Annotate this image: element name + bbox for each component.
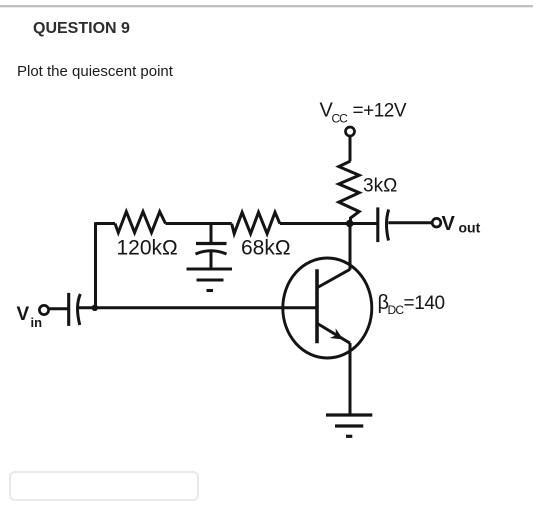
- output cap straight plate: [376, 207, 379, 242]
- transistor base bar: [315, 269, 319, 343]
- collector wire: [349, 224, 352, 270]
- bypass cap top plate: [196, 242, 227, 245]
- wire 68k to output cap: [280, 222, 377, 225]
- svg-text:=+12V: =+12V: [353, 101, 407, 122]
- svg-text:out: out: [459, 220, 481, 236]
- junction dot input: [92, 305, 98, 311]
- wire Vin circle to cap: [49, 307, 69, 310]
- resistor 3k zigzag: [339, 161, 359, 224]
- svg-text:V: V: [442, 213, 456, 235]
- collector diagonal: [318, 269, 351, 287]
- middle ground line1: [187, 267, 233, 270]
- svg-text:=140: =140: [404, 293, 445, 314]
- top divider line: [0, 5, 533, 7]
- wire Vcc to R 3k: [349, 136, 352, 161]
- Vout terminal circle: [432, 218, 441, 227]
- svg-text:V: V: [17, 304, 30, 325]
- heading QUESTION 9: [33, 20, 130, 38]
- left vertical wire: [94, 222, 97, 307]
- prompt text: [17, 63, 173, 80]
- svg-text:DC: DC: [388, 303, 405, 317]
- resistor 68k zigzag: [232, 212, 280, 233]
- bypass cap stub top: [210, 224, 213, 244]
- answer input box: [9, 471, 199, 501]
- svg-text:68kΩ: 68kΩ: [241, 237, 291, 260]
- main ground line1: [326, 413, 372, 416]
- input terminal circle Vin: [39, 305, 48, 314]
- svg-text:3kΩ: 3kΩ: [363, 176, 397, 197]
- main ground line3: [346, 435, 352, 438]
- middle ground line3: [207, 289, 214, 292]
- wire out cap to Vout terminal: [388, 221, 432, 224]
- transistor circle Q1: [283, 258, 372, 358]
- wire between resistors: [166, 222, 232, 225]
- svg-text:CC: CC: [332, 112, 349, 126]
- emitter arrowhead: [330, 328, 343, 339]
- base wire: [79, 306, 317, 309]
- svg-text:120kΩ: 120kΩ: [117, 237, 178, 260]
- wire top rail left segment: [96, 222, 116, 225]
- svg-text:in: in: [31, 315, 43, 330]
- middle ground line2: [197, 278, 224, 281]
- emitter diagonal: [318, 324, 350, 343]
- wire collector node to out cap: [350, 222, 377, 225]
- bypass cap stub bottom: [210, 252, 213, 270]
- resistor 120k zigzag: [115, 212, 166, 233]
- emitter wire: [349, 343, 352, 415]
- bypass cap curved bottom plate: [196, 251, 227, 254]
- input cap curved plate: [78, 294, 81, 325]
- junction dot collector node: [346, 220, 354, 228]
- input cap straight plate: [67, 293, 70, 326]
- output cap curved plate: [386, 210, 388, 241]
- main ground line2: [335, 424, 363, 427]
- Vcc terminal circle: [346, 127, 355, 136]
